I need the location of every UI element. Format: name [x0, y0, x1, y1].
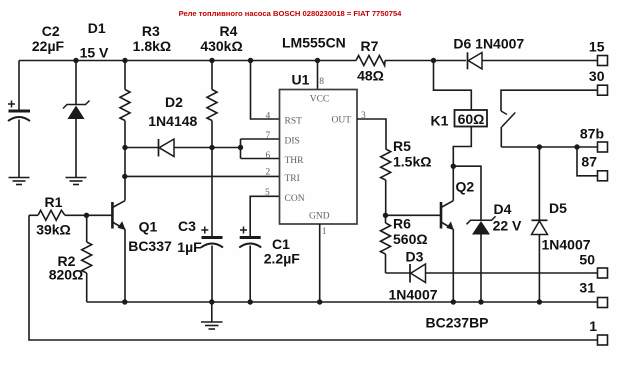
terminal 30: [589, 68, 608, 95]
svg-text:C3: C3: [178, 218, 196, 234]
terminal 87: [581, 153, 607, 181]
svg-text:OUT: OUT: [332, 116, 352, 126]
node rail-R3: [122, 58, 127, 63]
svg-text:C2: C2: [42, 23, 60, 39]
node rail-D1: [73, 58, 78, 63]
svg-text:GND: GND: [309, 212, 330, 222]
wire left column to terminal 1: [29, 215, 598, 340]
zener D4: [467, 201, 523, 302]
svg-text:1N4007: 1N4007: [388, 287, 437, 303]
resistor R4: [200, 23, 242, 236]
wire 87 jog: [577, 147, 598, 176]
terminal 31: [579, 280, 607, 308]
resistor R5: [381, 138, 432, 215]
node row31-pin1: [317, 299, 322, 304]
node row31-C1: [248, 299, 253, 304]
node 87b-D5: [537, 144, 542, 149]
wire VCC pin8: [317, 61, 319, 90]
svg-text:8: 8: [319, 77, 324, 87]
svg-text:R6: R6: [393, 216, 411, 232]
capacitor C1: [239, 227, 300, 303]
svg-text:22 V: 22 V: [493, 218, 522, 234]
node row31-Q1e: [122, 299, 127, 304]
wire top rail mid: [385, 60, 466, 62]
svg-text:Q2: Q2: [456, 179, 475, 195]
svg-text:D5: D5: [549, 200, 567, 216]
capacitor C3: [177, 218, 223, 302]
svg-text:820Ω: 820Ω: [49, 267, 84, 283]
svg-text:Q1: Q1: [139, 219, 158, 235]
transistor Q2: [386, 166, 475, 302]
node D2-R3col: [122, 145, 127, 150]
svg-text:1.8kΩ: 1.8kΩ: [133, 38, 171, 54]
node rail-VCC: [315, 58, 320, 63]
wire 87b row: [501, 146, 597, 148]
wire DIS-THR bracket: [241, 131, 280, 161]
svg-text:7: 7: [266, 131, 271, 141]
svg-text:39kΩ: 39kΩ: [36, 222, 71, 238]
svg-text:D1: D1: [88, 20, 106, 36]
svg-text:D2: D2: [165, 94, 183, 110]
wire terminal 30 to switch: [501, 90, 598, 111]
terminal 1: [589, 318, 607, 345]
resistor R2: [49, 215, 92, 302]
svg-text:1N4148: 1N4148: [148, 113, 197, 129]
svg-text:2.2µF: 2.2µF: [264, 251, 301, 267]
node rail-RST: [248, 58, 253, 63]
svg-text:15 V: 15 V: [80, 45, 109, 61]
wire TRI pin2: [125, 175, 280, 177]
svg-text:BC337: BC337: [128, 238, 172, 254]
svg-text:BC237BP: BC237BP: [425, 315, 488, 331]
svg-text:1N4007: 1N4007: [541, 237, 590, 253]
terminal 87b: [580, 126, 608, 153]
svg-text:Реле топливного насоса BOSCH 0: Реле топливного насоса BOSCH 0280230018 …: [179, 9, 403, 18]
svg-text:3: 3: [361, 111, 366, 121]
resistor R7: [356, 38, 385, 84]
resistor R6: [381, 215, 428, 273]
svg-text:VCC: VCC: [310, 94, 330, 104]
svg-text:31: 31: [579, 280, 595, 296]
svg-text:48Ω: 48Ω: [357, 68, 384, 84]
diode D5: [532, 147, 591, 302]
zener D1: [63, 20, 109, 178]
svg-text:1: 1: [589, 318, 597, 334]
relay coil K1: [431, 110, 487, 129]
diode D6: [453, 36, 524, 70]
node row31-C3: [209, 299, 214, 304]
svg-text:5: 5: [265, 188, 270, 198]
ground (center): [201, 302, 223, 329]
svg-text:87: 87: [581, 153, 597, 169]
svg-text:D4: D4: [494, 201, 512, 217]
node rail-K1: [431, 58, 436, 63]
op-amp U1 LM555CN chip body: [280, 35, 358, 225]
svg-text:22µF: 22µF: [32, 38, 65, 54]
svg-text:DIS: DIS: [285, 137, 300, 147]
resistor R1: [29, 194, 112, 238]
svg-text:LM555CN: LM555CN: [282, 35, 346, 51]
ground (D1): [66, 178, 87, 185]
svg-text:R7: R7: [361, 38, 379, 54]
svg-text:6: 6: [266, 151, 271, 161]
svg-text:4: 4: [266, 111, 271, 121]
svg-text:30: 30: [589, 68, 605, 84]
svg-text:1µF: 1µF: [177, 239, 202, 255]
wire GND pin1: [319, 224, 321, 302]
capacitor C2: [8, 23, 65, 178]
terminal 50: [579, 251, 607, 278]
diode D2: [125, 94, 241, 157]
svg-text:R5: R5: [393, 138, 411, 154]
transistor Q1: [112, 201, 172, 302]
wire CON pin5: [250, 196, 279, 236]
node rail-R4: [209, 58, 214, 63]
node R1-R2-base: [84, 213, 89, 218]
node TRI-R3col: [122, 174, 127, 179]
svg-text:CON: CON: [285, 194, 305, 204]
svg-text:1.5kΩ: 1.5kΩ: [393, 154, 431, 170]
node Q2 collector: [451, 164, 456, 169]
svg-text:560Ω: 560Ω: [393, 231, 428, 247]
node row31-Q2e: [451, 299, 456, 304]
svg-text:R4: R4: [220, 23, 238, 39]
svg-text:RST: RST: [285, 117, 303, 127]
node D2-R4col: [209, 145, 214, 150]
node 87b-87: [574, 144, 579, 149]
svg-text:15: 15: [589, 39, 605, 55]
wire OUT pin3: [357, 119, 386, 149]
svg-text:50: 50: [579, 251, 595, 267]
svg-text:R1: R1: [45, 194, 63, 210]
svg-text:D6 1N4007: D6 1N4007: [453, 36, 524, 52]
wire ground row 31: [87, 301, 598, 303]
terminal 15: [589, 39, 608, 66]
wire D4 top jog: [453, 166, 481, 220]
svg-text:1: 1: [322, 227, 327, 237]
resistor R3: [120, 23, 171, 201]
diode D3: [386, 249, 598, 303]
node row31-D5: [537, 299, 542, 304]
svg-text:60Ω: 60Ω: [458, 111, 485, 127]
svg-text:R3: R3: [142, 23, 160, 39]
svg-text:THR: THR: [285, 156, 305, 166]
node D2-bracket: [238, 145, 243, 150]
ground (C2): [9, 178, 30, 185]
wire K1 feed: [434, 61, 472, 111]
wire top rail left: [19, 60, 356, 62]
svg-text:K1: K1: [431, 113, 449, 129]
node R5-R6: [383, 213, 388, 218]
svg-text:2: 2: [266, 168, 271, 178]
relay switch: [501, 111, 515, 147]
svg-text:D3: D3: [406, 249, 424, 265]
svg-text:430kΩ: 430kΩ: [200, 38, 242, 54]
svg-text:U1: U1: [292, 72, 310, 88]
wire top rail right: [482, 60, 598, 62]
svg-text:TRI: TRI: [285, 174, 300, 184]
node row31-D4: [478, 299, 483, 304]
wire K1 to Q2 collector: [453, 127, 471, 167]
wire RST pin4: [251, 61, 280, 120]
svg-text:87b: 87b: [580, 126, 604, 142]
